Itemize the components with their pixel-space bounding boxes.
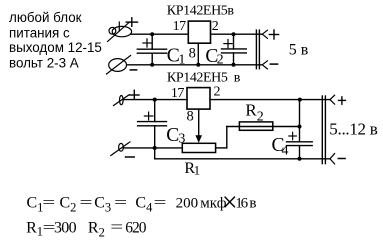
wire R2 row [227, 126, 300, 128]
junction node C1 top [150, 32, 154, 36]
svg-text:R1: R1 [26, 219, 43, 238]
svg-text:C4: C4 [272, 135, 289, 159]
plus polarity mark C2 [224, 40, 232, 48]
plus polarity mark C3 [144, 112, 153, 120]
wiper arrowhead onto R1 [195, 135, 202, 143]
svg-text:вольт 2-3 А: вольт 2-3 А [9, 56, 79, 71]
multiplication cross in formula [225, 197, 235, 208]
wire output column [299, 100, 301, 142]
capacitor C4 [287, 142, 313, 159]
svg-text:=: = [110, 219, 123, 236]
IC U2 box [187, 88, 210, 110]
svg-text:2: 2 [212, 19, 219, 34]
svg-text:питания с: питания с [9, 25, 70, 40]
wire bottom rail circuit 1 [127, 64, 262, 66]
plus mark output circuit 1 [269, 30, 278, 39]
wire minus rail input to R1 [124, 147, 183, 149]
output pin minus circuit 1 [262, 61, 267, 69]
wire top rail U1 pin 2 to output [211, 33, 263, 35]
svg-text:C4: C4 [135, 195, 153, 215]
svg-text:КР142ЕН5в: КР142ЕН5в [167, 4, 235, 19]
svg-text:17: 17 [173, 19, 187, 34]
junction node C2 bottom [232, 63, 236, 67]
plus polarity mark C4 [289, 132, 296, 139]
svg-text:C1: C1 [27, 195, 44, 215]
wire bottom rail circuit 2 [155, 158, 330, 160]
junction node C3 top [153, 98, 157, 102]
svg-text:8: 8 [189, 46, 196, 62]
output pin plus circuit 1 [262, 30, 267, 38]
svg-text:5 в: 5 в [289, 41, 309, 58]
resistor R2 [239, 122, 272, 130]
junction node C1 bottom [150, 63, 154, 67]
svg-text:200: 200 [176, 195, 199, 211]
plus polarity mark at X1 [126, 18, 137, 27]
wire top rail input to U1 pin 17 [131, 33, 189, 35]
output pin minus circuit 2 [330, 154, 335, 164]
plus polarity mark C1 [143, 39, 151, 47]
resistor R1 potentiometer [182, 143, 215, 152]
svg-text:мкф: мкф [200, 195, 226, 211]
svg-text:R1: R1 [184, 160, 200, 177]
plus polarity mark at X3 [130, 90, 140, 99]
formula line 1 capacitor values [27, 194, 257, 214]
junction node output top [298, 98, 302, 102]
svg-text:=: = [42, 194, 55, 211]
capacitor C2 [222, 34, 247, 65]
svg-text:=: = [80, 194, 93, 211]
svg-text:любой блок: любой блок [9, 10, 82, 25]
svg-text:C1: C1 [167, 45, 186, 67]
plus mark output circuit 2 [339, 97, 346, 104]
wire top rail U2 pin 2 to output [210, 99, 330, 101]
plug X3 plus input terminal circuit 2 [114, 95, 130, 106]
svg-text:8: 8 [187, 109, 194, 125]
formula line 2 resistor values [26, 219, 147, 239]
svg-text:2: 2 [214, 85, 221, 100]
junction node C2 top [232, 32, 236, 36]
junction node C3 bottom [153, 146, 157, 150]
minus polarity mark at X2 [130, 69, 136, 71]
socket X4 minus input terminal circuit 2 [111, 142, 130, 156]
socket X2 minus input terminal [107, 56, 131, 75]
output connector bars circuit 1 [256, 30, 259, 69]
capacitor C1 [137, 34, 166, 65]
output connector bars circuit 2 [322, 96, 325, 164]
svg-text:выходом 12-15: выходом 12-15 [9, 40, 102, 55]
svg-text:в: в [234, 71, 241, 86]
annotation power supply note [9, 10, 102, 71]
svg-text:16: 16 [235, 195, 248, 211]
output pin plus circuit 2 [330, 95, 335, 104]
svg-text:R2: R2 [245, 101, 263, 125]
wire riser to R2 row [226, 127, 228, 148]
svg-text:=: = [114, 194, 127, 211]
minus polarity mark at X4 [126, 156, 135, 158]
minus mark output circuit 2 [338, 158, 345, 160]
wire C3 bottom drop [154, 148, 156, 159]
svg-text:в: в [249, 195, 256, 211]
svg-text:C3: C3 [94, 195, 111, 215]
junction node pin8 bottom [196, 63, 200, 67]
wire U1 pin 8 to bottom rail [197, 43, 199, 65]
wire top rail input to U2 pin 17 [124, 99, 188, 101]
svg-text:620: 620 [125, 219, 147, 236]
junction node C4 bottom [298, 157, 302, 161]
svg-text:КР142ЕН5: КР142ЕН5 [167, 71, 228, 86]
IC U1 box [188, 21, 210, 43]
svg-text:=: = [154, 194, 167, 211]
svg-text:5...12 в: 5...12 в [329, 120, 377, 139]
wire R1 right to riser [216, 147, 227, 149]
minus mark output circuit 1 [270, 63, 277, 65]
plug X1 plus input terminal [108, 22, 132, 41]
svg-text:17: 17 [171, 86, 185, 101]
svg-text:300: 300 [54, 219, 77, 236]
capacitor C3 [138, 100, 167, 148]
svg-text:C3: C3 [166, 125, 185, 147]
wire U2 pin 8 stem [198, 109, 200, 137]
svg-text:C2: C2 [60, 195, 77, 215]
junction node R2 right [298, 125, 302, 129]
svg-text:R2: R2 [88, 219, 105, 239]
